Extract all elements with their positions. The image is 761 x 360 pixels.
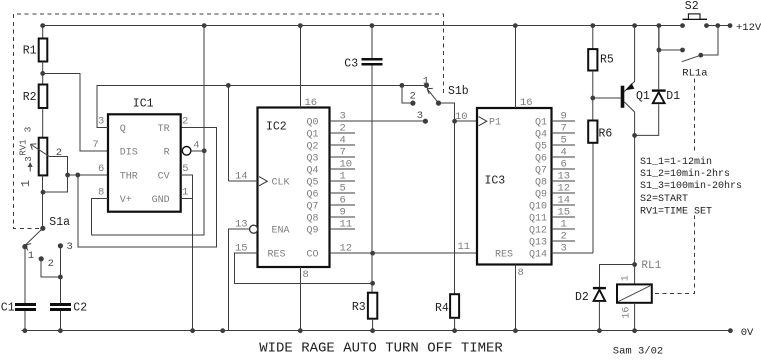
resistor R1 (23, 26, 48, 85)
switch S1b contact 3 (417, 110, 428, 124)
IC3 output Q12 stub pin 1 (529, 219, 575, 237)
svg-text:RES: RES (495, 250, 513, 261)
svg-text:S1b: S1b (448, 85, 469, 98)
diode D2 (575, 265, 635, 331)
svg-text:S2=START: S2=START (640, 194, 688, 205)
IC3 output Q13 stub pin 2 (529, 231, 575, 249)
IC3 output Q8 stub pin 13 (535, 171, 575, 189)
svg-text:6: 6 (98, 163, 104, 175)
junction node RV1 wiper/THR (65, 173, 70, 178)
junction node D1 anode / collector (632, 133, 637, 138)
svg-text:3: 3 (23, 126, 34, 132)
capacitor C2 (50, 246, 71, 331)
wire base R5/R6 node to Q1 (593, 97, 621, 99)
IC2 output Q6 stub pin 5 (306, 183, 355, 201)
svg-text:Q1: Q1 (535, 118, 547, 129)
resistor R2 (23, 85, 48, 138)
svg-text:2: 2 (56, 147, 62, 159)
wire CV (pin5) and GND (pin1) to 0V (181, 175, 193, 331)
IC3 output Q9 stub pin 12 (535, 183, 575, 201)
svg-text:S1_2=10min-2hrs: S1_2=10min-2hrs (640, 168, 730, 180)
pushbutton S2 (683, 0, 708, 19)
svg-text:Q5: Q5 (535, 142, 547, 153)
wire THR net to IC1 pin 6 (68, 174, 108, 176)
svg-text:11: 11 (340, 219, 353, 231)
svg-text:THR: THR (120, 171, 138, 182)
svg-text:Q1: Q1 (636, 90, 650, 103)
svg-text:1: 1 (182, 187, 188, 199)
svg-text:7: 7 (561, 123, 567, 135)
svg-text:RL1: RL1 (641, 260, 661, 272)
wire IC3 Q14 up to R6 (592, 143, 594, 253)
svg-text:3: 3 (98, 116, 104, 128)
svg-text:Q4: Q4 (306, 166, 318, 177)
svg-text:Q2: Q2 (306, 142, 318, 153)
svg-text:ENA: ENA (272, 226, 290, 237)
svg-text:R5: R5 (600, 54, 614, 67)
svg-text:IC2: IC2 (266, 121, 287, 134)
C2 label (73, 301, 87, 314)
svg-text:2: 2 (182, 116, 188, 128)
svg-text:C3: C3 (344, 58, 358, 71)
IC3 P1 input triangle and label (479, 117, 502, 129)
IC3 output Q1 stub pin 9 (535, 111, 575, 129)
svg-text:9: 9 (340, 207, 346, 219)
svg-text:16: 16 (520, 97, 533, 109)
svg-text:R6: R6 (599, 128, 613, 141)
svg-text:RL1a: RL1a (682, 68, 707, 80)
IC2 CLK input triangle and label (259, 177, 290, 189)
svg-text:5: 5 (340, 183, 346, 195)
wire S1a contact2 to C2 net (41, 259, 60, 277)
svg-text:3: 3 (561, 243, 567, 255)
svg-text:R1: R1 (23, 44, 37, 57)
junction node CO/C3/R3 (370, 251, 375, 256)
IC2 pin 14 label (235, 171, 248, 183)
svg-text:2: 2 (48, 258, 54, 270)
junction node RV1 pin1 (41, 190, 46, 195)
IC3 output Q5 stub pin 5 (535, 135, 575, 153)
junction node THR/TR tap (75, 173, 80, 178)
svg-text:Q7: Q7 (535, 166, 547, 177)
wire IC1 pin4 to V+ net (191, 150, 204, 152)
relay coil RL1 (617, 265, 652, 331)
svg-text:CV: CV (158, 171, 170, 182)
dashed mechanical linkage S1a-S1b (14, 14, 444, 228)
RV1 terminal 2 label (wiper) (56, 147, 62, 159)
IC2 output Q2 stub pin 4 (306, 135, 355, 153)
capacitor C1 (15, 247, 36, 331)
svg-text:Q11: Q11 (529, 214, 547, 225)
IC3 output Q7 stub pin 6 (535, 159, 575, 177)
junction node collector/RL1/D2 (632, 260, 661, 272)
IC2 ENA bubble and label (250, 225, 290, 237)
title (259, 341, 503, 357)
IC3 VSS pin 8 wire (514, 265, 516, 331)
switch S1b contact 1 (423, 75, 429, 88)
junction node RES/R3 (370, 281, 375, 286)
svg-text:WIDE RAGE AUTO TURN OFF TIMER: WIDE RAGE AUTO TURN OFF TIMER (259, 341, 503, 357)
IC2 output Q9 stub pin 11 (306, 219, 355, 237)
svg-text:6: 6 (561, 159, 567, 171)
+12V label (736, 22, 761, 34)
0V rail (22, 330, 731, 332)
svg-text:7: 7 (92, 139, 98, 151)
svg-text:C2: C2 (73, 301, 87, 314)
svg-text:Q6: Q6 (306, 190, 318, 201)
counter IC3 box (477, 108, 552, 265)
junction dots on +12V rail (40, 23, 732, 28)
svg-text:5: 5 (561, 135, 567, 147)
wire to S1b contact 2 (402, 85, 413, 103)
IC2 pin 8 label (303, 269, 309, 281)
switch S1a contact 3 (58, 241, 73, 253)
svg-text:15: 15 (558, 207, 571, 219)
IC2 RES label (268, 250, 286, 261)
IC3 pin 8 label (518, 267, 524, 279)
transistor Q1 (PNP) (621, 26, 650, 265)
svg-text:2: 2 (340, 123, 346, 135)
svg-text:8: 8 (518, 267, 524, 279)
junction dots on 0V rail (23, 328, 733, 333)
svg-text:8: 8 (303, 269, 309, 281)
junction node R1/R2/DIS (40, 71, 45, 76)
svg-text:16: 16 (622, 307, 633, 319)
IC2 VSS pin 8 wire (299, 267, 301, 331)
svg-text:Sam 3/02: Sam 3/02 (613, 345, 663, 357)
svg-text:1: 1 (621, 275, 632, 281)
junction node R pin / V+ riser (202, 148, 207, 153)
svg-text:R2: R2 (23, 91, 37, 104)
svg-text:4: 4 (193, 140, 199, 152)
svg-text:1: 1 (561, 219, 567, 231)
svg-text:Q12: Q12 (529, 226, 547, 237)
IC3 pin 16 label (520, 97, 533, 109)
svg-text:1: 1 (423, 75, 429, 87)
svg-text:3: 3 (340, 111, 346, 123)
IC2 output Q1 stub pin 2 (306, 123, 355, 141)
svg-text:S1_1=1-12min: S1_1=1-12min (640, 156, 712, 168)
svg-text:P1: P1 (489, 118, 501, 129)
svg-text:RV1: RV1 (19, 139, 29, 155)
svg-text:Q0: Q0 (306, 118, 318, 129)
IC3 output Q11 stub pin 15 (529, 207, 575, 225)
wire IC2 CLK pin 14 (228, 85, 257, 181)
IC3 output Q14 stub pin 3 (529, 243, 593, 261)
svg-text:RV1=TIME SET: RV1=TIME SET (640, 207, 712, 218)
svg-text:9: 9 (561, 111, 567, 123)
svg-text:D2: D2 (575, 291, 589, 304)
svg-text:Q: Q (120, 124, 126, 135)
svg-text:Q8: Q8 (535, 178, 547, 189)
potentiometer RV1 body (39, 138, 48, 176)
IC2 output Q7 stub pin 6 (306, 195, 355, 213)
svg-text:Q5: Q5 (306, 178, 318, 189)
switch S1a contact 1 (22, 244, 34, 262)
+12V rail (43, 25, 730, 27)
svg-text:14: 14 (235, 171, 248, 183)
relay contact RL1a (657, 26, 718, 80)
svg-text:+12V: +12V (736, 22, 761, 34)
wire V+ net (pin8, under IC1, up to +12V rail) (91, 26, 204, 236)
wire RV1 wiper to pin1 tie (43, 157, 68, 193)
junction node P1 (452, 119, 457, 124)
IC3 label (485, 174, 506, 187)
IC2 output Q5 stub pin 1 (306, 171, 355, 189)
wire S1b pole to IC3 P1 and R4 (439, 103, 478, 294)
svg-text:R4: R4 (435, 302, 449, 315)
svg-text:3: 3 (417, 110, 423, 122)
svg-text:2: 2 (561, 231, 567, 243)
switch S1a label (49, 216, 70, 229)
svg-text:Q3: Q3 (306, 154, 318, 165)
svg-text:3: 3 (23, 156, 34, 162)
svg-text:7: 7 (340, 147, 346, 159)
svg-text:S1a: S1a (49, 216, 70, 229)
C1 label (1, 301, 15, 314)
svg-text:V+: V+ (120, 195, 132, 206)
svg-text:3: 3 (67, 241, 73, 253)
svg-text:R: R (164, 148, 170, 159)
svg-text:Q10: Q10 (529, 202, 547, 213)
svg-text:TR: TR (158, 124, 170, 135)
capacitor C3 (361, 26, 382, 293)
counter IC2 box (258, 108, 330, 268)
svg-text:C1: C1 (1, 301, 15, 314)
IC3 VDD pin 16 wire (514, 26, 516, 108)
switch S1a arm with arrowhead (25, 228, 42, 250)
svg-text:RES: RES (268, 250, 286, 261)
switch S1b pole (436, 101, 441, 106)
wire IC1 Q output (pin3) to clock line (97, 85, 426, 127)
svg-text:S1_3=100min-20hrs: S1_3=100min-20hrs (640, 180, 742, 192)
svg-text:8: 8 (98, 187, 104, 199)
svg-text:R3: R3 (352, 301, 366, 314)
wire RV1 bottom to S1a pole (42, 175, 44, 228)
svg-text:IC3: IC3 (485, 174, 506, 187)
svg-text:6: 6 (340, 195, 346, 207)
svg-text:10: 10 (340, 159, 353, 171)
svg-text:11: 11 (458, 241, 471, 253)
svg-text:12: 12 (558, 183, 571, 195)
resistor R4 (435, 294, 459, 331)
dashed mechanical linkage RL1-RL1a (652, 78, 695, 293)
svg-text:Q1: Q1 (306, 130, 318, 141)
junction node R5/R6/base (590, 96, 595, 101)
0V label (741, 327, 754, 339)
RV1 label (rotated) (19, 139, 29, 155)
switch S1b arm with arrowhead (427, 88, 439, 103)
svg-text:DIS: DIS (120, 148, 138, 159)
svg-text:CLK: CLK (272, 178, 290, 189)
svg-text:S2: S2 (685, 0, 699, 13)
IC2 CO output pin 12 (306, 243, 477, 261)
IC3 output Q4 stub pin 7 (535, 123, 575, 141)
IC2 output Q4 stub pin 10 (306, 159, 355, 177)
IC2 VDD pin 16 wire (299, 26, 301, 108)
resistor R6 (588, 121, 612, 143)
svg-text:D1: D1 (666, 90, 680, 103)
IC1 label (133, 98, 154, 111)
svg-text:15: 15 (235, 243, 248, 255)
svg-text:0V: 0V (741, 327, 754, 339)
svg-text:Q4: Q4 (535, 130, 547, 141)
svg-text:5: 5 (182, 163, 188, 175)
switch S1a pole (40, 226, 45, 231)
IC1 pin numbers (92, 116, 199, 199)
junction node contact2/C2 (58, 275, 63, 280)
junction node clockline/contact2 drop (400, 83, 405, 88)
svg-text:13: 13 (558, 171, 571, 183)
wire DIS net (R1/R2 junction to IC1 pin7) (43, 73, 108, 151)
svg-text:16: 16 (305, 97, 318, 109)
IC2 pin 13 label (235, 219, 248, 231)
svg-text:13: 13 (235, 219, 248, 231)
C3 label (344, 58, 358, 71)
resistor R5 (588, 26, 614, 121)
switch S1b label (448, 85, 469, 98)
op-amp/timer IC1 box (108, 114, 181, 211)
IC1 reset bubble (pin 4) (182, 147, 191, 156)
svg-text:Q9: Q9 (306, 226, 318, 237)
IC2 output Q3 stub pin 7 (306, 147, 355, 165)
svg-text:Q13: Q13 (529, 238, 547, 249)
svg-text:Q8: Q8 (306, 214, 318, 225)
resistor R3 (352, 293, 377, 331)
wire IC2 RES pin 15 loop to R3 node (235, 253, 373, 283)
svg-text:1: 1 (28, 250, 34, 262)
RV1 annotation 1-to-3 arrow (19, 156, 34, 187)
wire IC2 ENA pin 13 to 0V (228, 229, 249, 331)
diode D1 (635, 26, 681, 136)
junction node Q/CLK (226, 83, 231, 88)
potentiometer RV1 wiper arrow (30, 144, 49, 157)
switch S1a contact 2 (39, 256, 54, 270)
switch function annotation text (638, 152, 747, 218)
svg-text:IC1: IC1 (133, 98, 154, 111)
IC2 output Q0 stub pin 3 (306, 111, 425, 129)
svg-text:12: 12 (340, 243, 353, 255)
RV1 terminal 3 label (top, rotated) (23, 126, 34, 132)
wire TR net (THR tap down, right, up to IC1 pin 2) (78, 128, 217, 248)
svg-text:4: 4 (340, 135, 346, 147)
IC3 output Q6 stub pin 4 (535, 147, 575, 165)
IC3 RES label and pin 11 (458, 241, 514, 261)
IC3 pin 10 label (455, 111, 468, 123)
IC2 pin 16 label (305, 97, 318, 109)
svg-text:4: 4 (561, 147, 567, 159)
svg-text:Q6: Q6 (535, 154, 547, 165)
svg-text:GND: GND (152, 195, 170, 206)
svg-text:1: 1 (19, 180, 33, 187)
svg-text:2: 2 (410, 91, 416, 103)
IC2 pin 15 label (235, 243, 248, 255)
author/date (613, 345, 663, 357)
svg-text:Q14: Q14 (529, 250, 547, 261)
svg-text:14: 14 (558, 195, 571, 207)
svg-text:10: 10 (455, 111, 468, 123)
IC2 output Q8 stub pin 9 (306, 207, 355, 225)
IC1 pin names (120, 124, 170, 206)
switch S1b contact 2 (410, 91, 416, 106)
svg-text:Q7: Q7 (306, 202, 318, 213)
IC3 output Q10 stub pin 14 (529, 195, 575, 213)
svg-text:CO: CO (306, 250, 318, 261)
svg-text:1: 1 (340, 171, 346, 183)
svg-text:Q9: Q9 (535, 190, 547, 201)
IC2 label (266, 121, 287, 134)
